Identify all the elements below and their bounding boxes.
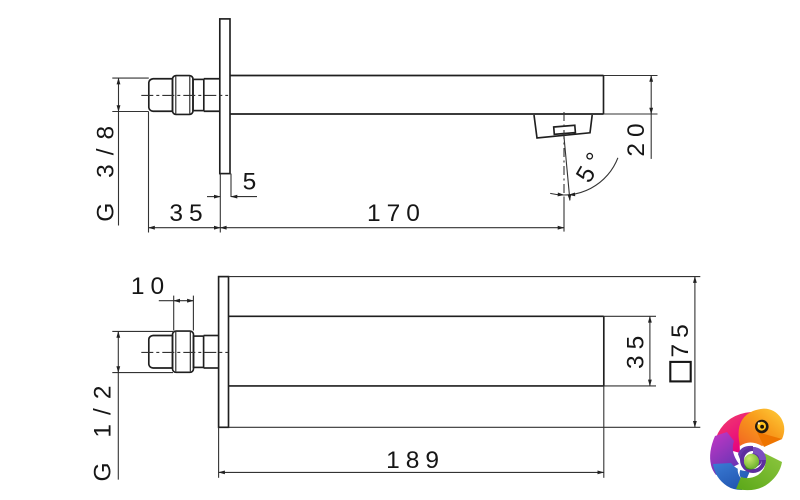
svg-text:5°: 5° xyxy=(571,143,612,187)
svg-text:189: 189 xyxy=(386,447,445,474)
svg-text:75: 75 xyxy=(667,318,694,357)
svg-text:G 3/8: G 3/8 xyxy=(93,117,120,222)
svg-text:10: 10 xyxy=(131,273,170,300)
svg-text:35: 35 xyxy=(623,330,650,369)
svg-text:G 1/2: G 1/2 xyxy=(90,377,117,482)
svg-text:35: 35 xyxy=(169,200,208,227)
svg-text:170: 170 xyxy=(367,200,426,227)
svg-text:20: 20 xyxy=(623,117,650,156)
svg-text:5: 5 xyxy=(243,169,263,196)
